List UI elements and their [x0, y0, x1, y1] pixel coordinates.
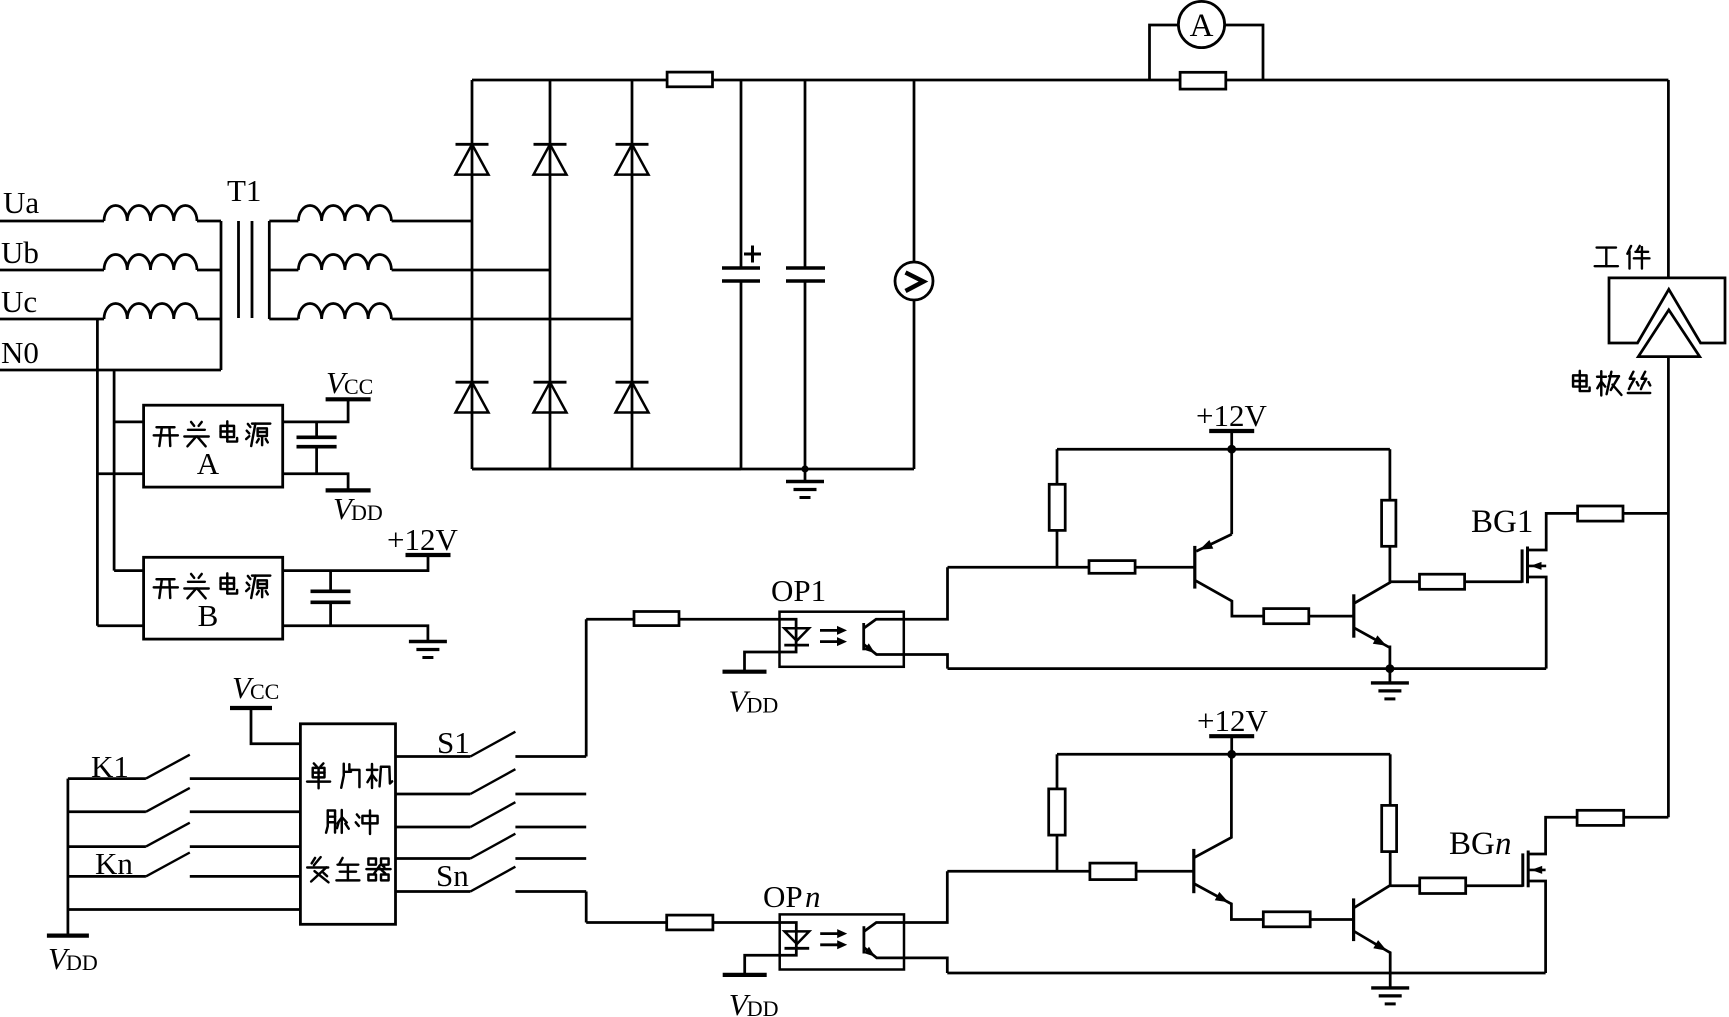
- capacitor C1 polarized plates: [722, 266, 760, 270]
- switch K row 3 blade: [146, 823, 190, 847]
- inductor T1 secondary C: [298, 304, 391, 320]
- diode D1: [456, 143, 489, 146]
- transistor Q3 emitter: [1194, 884, 1264, 920]
- resistor R1 on DC+ line: [667, 72, 712, 87]
- wire supply A VCC output: [283, 399, 348, 422]
- wire N0 input: [0, 369, 221, 372]
- resistor R5 driver1 pullup: [1049, 484, 1065, 530]
- voltmeter PV needle glyph: [906, 273, 924, 292]
- wire +12V rail driver2: [1057, 753, 1390, 756]
- svg-text:CC: CC: [250, 679, 279, 704]
- wire Ub input: [0, 269, 104, 272]
- power bar VDD OP1: [723, 670, 767, 674]
- wire S1 to R3: [586, 618, 634, 621]
- node bridge ground junction: [801, 465, 808, 472]
- svg-text:OP: OP: [763, 879, 803, 914]
- wire supply B lower input: [97, 624, 143, 627]
- wire rail to R5 driver1: [1056, 449, 1059, 484]
- power bar +12V driver2: [1209, 734, 1254, 738]
- wire voltmeter branch lower: [913, 300, 916, 469]
- wire S row 3 right: [515, 826, 586, 829]
- ground driver1: [1389, 669, 1392, 683]
- wire driver2 input line: [947, 870, 1090, 873]
- wire K row 3 left: [68, 845, 146, 848]
- wire S row 4 stub: [396, 857, 471, 860]
- wire K row 4 left: [68, 875, 146, 878]
- wire R10 to right rail: [1623, 512, 1668, 515]
- resistor R10 BG1 drain: [1578, 506, 1623, 521]
- capacitor C4 plates: [311, 589, 351, 593]
- inductor T1 primary C: [104, 304, 197, 320]
- wire OP1 top out: [904, 567, 948, 619]
- svg-text:DD: DD: [747, 693, 779, 718]
- inductor T1 primary A: [104, 206, 197, 222]
- wire OPn top out: [904, 871, 947, 922]
- transistor Q3 collector: [1194, 754, 1232, 858]
- transistor Q3 NPN base bar: [1192, 849, 1195, 893]
- inductor T1 secondary B: [298, 254, 391, 270]
- transistor Q2 emitter: [1354, 628, 1390, 669]
- wire S1 riser: [585, 619, 588, 756]
- wire K row 1 right: [190, 777, 301, 780]
- inductor T1 secondary A: [298, 206, 391, 222]
- ammeter PA circle: [1178, 1, 1224, 47]
- resistor R6 driver1 base: [1089, 561, 1135, 574]
- resistor R7 driver1 interstage: [1264, 609, 1309, 624]
- svg-text:Uc: Uc: [1, 284, 37, 319]
- wire R14 to rail: [1389, 754, 1392, 805]
- capacitor C4 lower lead: [329, 602, 332, 626]
- mosfet BG1 drain stub: [1528, 513, 1578, 550]
- wire ammeter bypass right: [1225, 25, 1263, 80]
- inductor T1 primary B: [104, 254, 197, 270]
- wire bridge column 1: [471, 80, 474, 469]
- wire electrolytic cap branch upper: [740, 80, 743, 268]
- switch S row 2 blade: [470, 769, 515, 794]
- wire Sn to R4: [586, 921, 667, 924]
- optocoupler OPn phototransistor emitter: [864, 948, 904, 958]
- optocoupler OPn box: [780, 914, 904, 969]
- wire R6 to Q1 base: [1135, 566, 1195, 569]
- switch S row 4 blade: [470, 834, 515, 859]
- power bar VCC supply A: [326, 397, 371, 401]
- wire K row 3 right: [190, 845, 301, 848]
- voltmeter PV circle: [895, 262, 933, 300]
- label electrode wire 电极丝: [1573, 371, 1590, 391]
- wire +12V rail driver1: [1057, 448, 1390, 451]
- wire supply B ground output: [283, 626, 428, 642]
- wire primary A to bus: [197, 220, 221, 223]
- optocoupler OP1 LED: [784, 628, 809, 641]
- svg-text:DD: DD: [747, 996, 779, 1017]
- power bar +12V driver1: [1209, 429, 1254, 433]
- mosfet BG1 gate bar: [1521, 549, 1524, 582]
- resistor R4 OPn input: [667, 915, 713, 930]
- label supply A line1 开关电源: [154, 427, 178, 446]
- svg-text:n: n: [1495, 826, 1512, 862]
- wire R8 to rail: [1389, 449, 1392, 500]
- wire K row 2 left: [68, 810, 146, 813]
- svg-text:B: B: [198, 598, 219, 633]
- mosfet BGn drain stub: [1528, 817, 1577, 854]
- label MCU line3 发生器: [307, 857, 328, 882]
- svg-text:+12V: +12V: [387, 522, 458, 557]
- wire R9 to BG1 gate: [1465, 580, 1523, 583]
- wire R13 to Q4 base: [1310, 918, 1353, 921]
- wire primary C to bus: [197, 318, 221, 321]
- transformer T1 core: [237, 221, 240, 318]
- optocoupler OP1 phototransistor base: [862, 623, 865, 650]
- wire driver1 input line: [948, 566, 1090, 569]
- wire K bottom row: [68, 908, 301, 911]
- wire Q4 collector to gate resistor: [1390, 884, 1420, 887]
- wire feed bus 2 from N0: [113, 370, 116, 571]
- wire OPn bottom out: [904, 958, 947, 973]
- svg-text:Sn: Sn: [436, 858, 469, 893]
- wire S row 5 right: [515, 890, 586, 893]
- power bar VDD K bus: [47, 933, 89, 937]
- mosfet BG1 channel bar: [1526, 547, 1529, 584]
- resistor R14 driver2 collector: [1382, 805, 1397, 851]
- switch K row 1 blade: [146, 755, 190, 779]
- wire bottom line cap section: [472, 468, 741, 471]
- wire S row 3 stub: [396, 826, 471, 829]
- power bar VDD OPn: [723, 973, 767, 977]
- capacitor C3 lower lead: [315, 447, 318, 474]
- transistor Q1 PNP base bar: [1193, 546, 1196, 589]
- wire OP1 bottom out: [904, 655, 948, 669]
- wire supply A upper input: [114, 421, 144, 424]
- wire S row 4 right: [515, 857, 586, 860]
- wire Uc input: [0, 318, 104, 321]
- svg-text:A: A: [1190, 8, 1214, 44]
- resistor R2 ammeter shunt: [1180, 72, 1226, 89]
- optocoupler OP1 LED anode rail: [745, 619, 797, 671]
- resistor R9 BG1 gate: [1420, 574, 1465, 589]
- wire secondary C lead: [269, 318, 298, 321]
- mosfet BGn gate bar: [1521, 853, 1524, 886]
- wire ammeter bypass left: [1150, 25, 1179, 80]
- svg-text:BG: BG: [1449, 826, 1495, 862]
- transistor Q2 collector: [1354, 546, 1390, 603]
- wire Ua input: [0, 220, 104, 223]
- svg-text:A: A: [197, 446, 220, 481]
- svg-text:+12V: +12V: [1197, 703, 1268, 738]
- transistor Q1 emitter: [1196, 534, 1231, 551]
- wire R7 to Q2 base: [1309, 615, 1354, 618]
- wire S row 2 right: [515, 793, 586, 796]
- mosfet BGn source stub: [1528, 881, 1545, 973]
- mosfet BGn channel bar: [1527, 851, 1530, 888]
- diode D3: [616, 143, 649, 146]
- wire S row 2 stub: [396, 793, 471, 796]
- wire right rail upper: [1667, 80, 1670, 278]
- resistor R13 driver2 interstage: [1263, 912, 1310, 927]
- wire S row 5 stub: [396, 890, 471, 893]
- wire bridge column 2: [549, 80, 552, 469]
- svg-text:DD: DD: [351, 500, 383, 525]
- wire right rail lower: [1667, 357, 1670, 818]
- wire voltmeter branch upper: [913, 80, 916, 262]
- wire VCC to MCU: [251, 708, 300, 744]
- optocoupler OP1 box: [780, 612, 904, 667]
- wire cap C2 branch lower: [804, 281, 807, 469]
- switch K row 4 blade: [146, 853, 190, 877]
- switch S row 1 blade: [470, 732, 515, 757]
- switch K row 2 blade: [146, 788, 190, 812]
- node +12V rail driver1: [1227, 445, 1236, 454]
- transistor Q2 NPN base bar: [1352, 594, 1355, 637]
- wire K row 2 right: [190, 810, 301, 813]
- wire driver2 bottom line: [947, 972, 1545, 975]
- mosfet BG1 source stub: [1528, 577, 1547, 669]
- transistor Q1 collector: [1195, 580, 1264, 616]
- diode D6: [616, 381, 649, 384]
- wire supply B upper input: [114, 569, 144, 572]
- optocoupler OP1 phototransistor collector: [864, 619, 904, 628]
- wire supply A lower input: [97, 472, 143, 475]
- svg-text:N0: N0: [1, 335, 39, 370]
- wire cap C2 branch upper: [804, 80, 807, 268]
- wire K row 1 left: [68, 777, 146, 780]
- label MCU line2 脉冲: [326, 810, 349, 833]
- wire R16 to right rail: [1624, 816, 1669, 819]
- capacitor C4 supply B upper lead: [329, 571, 332, 592]
- svg-text:+12V: +12V: [1196, 398, 1267, 433]
- optocoupler OP1 phototransistor emitter: [864, 644, 904, 654]
- svg-text:CC: CC: [344, 374, 373, 399]
- wire +12V stub driver2: [1230, 736, 1233, 754]
- electrode wire tip chevron: [1638, 310, 1699, 357]
- wire supply A VDD output: [283, 474, 348, 491]
- label supply B line1 开关电源: [154, 579, 178, 598]
- optocoupler OP1 light arrows: [820, 629, 839, 632]
- svg-text:DD: DD: [66, 950, 98, 975]
- svg-text:Ua: Ua: [3, 185, 39, 220]
- resistor R15 BGn gate: [1420, 878, 1466, 894]
- wire Sn dropper: [585, 892, 588, 923]
- ground driver2: [1389, 973, 1392, 988]
- svg-text:n: n: [805, 879, 821, 914]
- wire S row 1 stub: [396, 755, 471, 758]
- box MCU pulse generator: [300, 724, 395, 925]
- optocoupler OPn light arrows: [820, 932, 839, 935]
- wire primary star bus: [220, 221, 223, 370]
- wire DC- bottom line: [472, 468, 914, 471]
- wire secondary C to bridge: [392, 318, 632, 321]
- wire rail to R11 driver2: [1056, 754, 1059, 789]
- diode D2: [534, 143, 567, 146]
- capacitor C3 plates: [297, 435, 337, 439]
- wire bridge column 3: [631, 80, 634, 469]
- svg-text:OP1: OP1: [771, 573, 826, 608]
- resistor R12 driver2 base: [1090, 863, 1136, 880]
- workpiece block: [1609, 278, 1725, 343]
- wire S row 1 right: [515, 755, 586, 758]
- optocoupler OPn LED: [785, 931, 810, 944]
- label C1 plus: [744, 253, 761, 256]
- wire electrolytic cap branch lower: [740, 281, 743, 469]
- capacitor C3 supply A upper lead: [315, 422, 318, 437]
- power bar +12V supply B: [406, 553, 451, 557]
- wire K row 4 right: [190, 875, 301, 878]
- resistor R11 driver2 pullup: [1049, 789, 1066, 835]
- wire R4 to OPn: [713, 921, 780, 924]
- svg-text:BG1: BG1: [1471, 504, 1533, 540]
- box switching supply B: [144, 557, 283, 639]
- wire secondary star bus: [268, 221, 271, 319]
- label workpiece 工件: [1595, 248, 1618, 267]
- wire driver1 bottom line: [948, 667, 1547, 670]
- wire K bus: [67, 779, 70, 936]
- switch S row 3 blade: [470, 802, 515, 827]
- wire secondary A to bridge: [392, 220, 472, 223]
- resistor R8 driver1 collector: [1382, 500, 1396, 546]
- wire +12V stub driver1: [1230, 431, 1233, 449]
- diode D4: [456, 381, 489, 384]
- transistor Q4 emitter: [1354, 931, 1391, 973]
- mosfet BGn body arrow: [1528, 869, 1545, 872]
- mosfet BG1 body arrow: [1528, 565, 1547, 568]
- transistor Q4 NPN base bar: [1352, 898, 1355, 941]
- node driver1 emitter junction: [1386, 664, 1395, 673]
- resistor R16 BGn drain: [1577, 810, 1624, 825]
- wire R5 to input line driver1: [1056, 530, 1059, 567]
- transistor Q4 collector: [1354, 852, 1391, 908]
- wire supply B +12V output: [283, 555, 428, 571]
- wire feed bus 1 from Uc: [96, 319, 99, 626]
- box switching supply A: [144, 405, 283, 487]
- wire R11 to input line driver2: [1056, 835, 1059, 871]
- wire Q1 emitter from rail: [1230, 449, 1233, 534]
- wire R15 to BGn gate: [1466, 884, 1523, 887]
- label MCU line1 单片机: [307, 763, 330, 788]
- optocoupler OPn LED anode rail: [745, 923, 797, 975]
- wire DC+ top line: [472, 79, 1668, 82]
- ground bridge: [804, 469, 807, 482]
- wire R3 to OP1: [679, 618, 780, 621]
- wire R12 to Q3 base: [1136, 870, 1194, 873]
- switch S row 5 blade: [470, 867, 515, 892]
- svg-text:T1: T1: [227, 173, 261, 208]
- optocoupler OPn phototransistor collector: [864, 923, 904, 932]
- wire primary B to bus: [197, 269, 221, 272]
- wire secondary B to bridge: [392, 269, 550, 272]
- resistor R3 OP1 input: [634, 612, 679, 626]
- node +12V rail driver2: [1227, 750, 1236, 759]
- power bar VDD supply A: [326, 488, 371, 492]
- wire secondary B lead: [269, 269, 298, 272]
- power bar VCC MCU: [230, 706, 272, 710]
- ground supply B: [409, 640, 447, 643]
- svg-text:S1: S1: [437, 725, 470, 760]
- wire secondary A lead: [269, 220, 298, 223]
- optocoupler OPn phototransistor base: [863, 926, 866, 953]
- wire Q2 collector to gate resistor: [1390, 580, 1420, 583]
- diode D5: [534, 381, 567, 384]
- svg-text:Ub: Ub: [1, 235, 39, 270]
- capacitor C2 plates: [786, 266, 825, 270]
